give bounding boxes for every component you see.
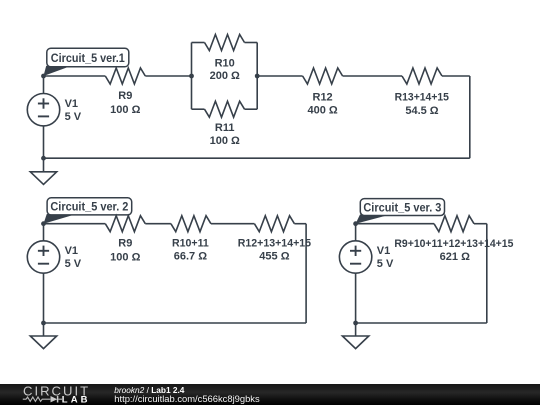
- wire bottom branch left: [192, 108, 205, 110]
- voltage source V1 (circuit 1): [27, 94, 59, 126]
- wire to ground symbol: [43, 158, 45, 172]
- wire node to R9 (c2): [44, 223, 106, 225]
- junction ground node (circuit 1): [41, 156, 46, 161]
- wire to right corner (c2): [294, 223, 306, 225]
- svg-text:R12+13+14+15: R12+13+14+15: [238, 237, 311, 249]
- wire node to V1 top (c3): [355, 224, 357, 241]
- wire to ground symbol (c3): [355, 323, 357, 336]
- resistor R9: [105, 68, 145, 84]
- svg-text:V1: V1: [65, 98, 78, 110]
- svg-text:R9: R9: [118, 90, 132, 102]
- resistor R10: [205, 35, 245, 51]
- svg-text:54.5 Ω: 54.5 Ω: [405, 105, 438, 117]
- wire R9 to R10+11: [145, 223, 171, 225]
- svg-text:Circuit_5 ver. 3: Circuit_5 ver. 3: [363, 202, 441, 214]
- svg-text:621 Ω: 621 Ω: [440, 251, 470, 263]
- ground (circuit 3): [342, 336, 368, 349]
- label Circuit_5 ver. 3 callout: [356, 215, 391, 224]
- resistor R9+10+11+12+13+14+15: [434, 216, 474, 232]
- wire right vertical (c3): [486, 224, 488, 323]
- resistor R9 (c2): [105, 216, 145, 232]
- svg-text:V1: V1: [65, 245, 78, 257]
- junction ground node (circuit 3): [353, 321, 358, 326]
- wire parallel right vertical: [256, 43, 258, 110]
- svg-text:R13+14+15: R13+14+15: [395, 92, 449, 104]
- wire parallel left vertical: [191, 43, 193, 110]
- wire V1 bottom to ground node: [43, 126, 45, 158]
- logo resistor squiggle: [23, 397, 51, 401]
- wire right vertical (c2): [305, 224, 307, 323]
- wire R9 to parallel left: [145, 75, 191, 77]
- svg-text:66.7 Ω: 66.7 Ω: [174, 251, 207, 263]
- voltage source V1 (circuit 3): [339, 241, 371, 273]
- svg-text:5 V: 5 V: [377, 258, 394, 270]
- wire node to V1 top: [43, 76, 45, 94]
- node A (circuit 1 top node): [41, 74, 46, 79]
- resistor R12+13+14+15: [254, 216, 294, 232]
- wire bottom return: [44, 157, 470, 159]
- svg-text:200 Ω: 200 Ω: [210, 70, 240, 82]
- wire to top-right corner: [442, 75, 470, 77]
- wire to right corner (c3): [474, 223, 487, 225]
- node top (circuit 3): [353, 221, 358, 226]
- resistor R13+14+15: [402, 68, 442, 84]
- svg-text:V1: V1: [377, 245, 390, 257]
- svg-text:R12: R12: [313, 92, 333, 104]
- footer credits: [113, 383, 115, 385]
- voltage source V1 (circuit 2): [27, 241, 59, 273]
- wire top branch left: [192, 42, 205, 44]
- CircuitLab logo: [0, 384, 110, 405]
- resistor R10+11: [171, 216, 211, 232]
- wire right vertical: [469, 76, 471, 158]
- label Circuit_5 ver. 2 callout: [44, 214, 78, 224]
- junction ground node (circuit 2): [41, 321, 46, 326]
- svg-text:100 Ω: 100 Ω: [210, 135, 240, 147]
- svg-text:100 Ω: 100 Ω: [110, 251, 140, 263]
- wire node to R9: [44, 75, 106, 77]
- footer bar: [0, 384, 540, 405]
- resistor R11: [205, 101, 245, 117]
- wire bottom return (c2): [44, 322, 307, 324]
- svg-text:Circuit_5 ver.1: Circuit_5 ver.1: [51, 53, 126, 65]
- svg-text:400 Ω: 400 Ω: [307, 104, 337, 116]
- junction parallel left: [189, 74, 194, 79]
- svg-text:5 V: 5 V: [65, 111, 82, 123]
- wire to ground symbol (c2): [43, 323, 45, 336]
- wire R10+11 to R12+13+14+15: [211, 223, 255, 225]
- wire bottom branch right: [245, 108, 258, 110]
- svg-text:5 V: 5 V: [65, 258, 82, 270]
- svg-text:Circuit_5 ver. 2: Circuit_5 ver. 2: [50, 202, 128, 214]
- wire parallel to R12: [257, 75, 302, 77]
- svg-text:R9: R9: [118, 237, 132, 249]
- svg-text:R9+10+11+12+13+14+15: R9+10+11+12+13+14+15: [394, 238, 513, 250]
- wire node to R (c3): [356, 223, 434, 225]
- resistor R12: [303, 68, 343, 84]
- svg-text:R10+11: R10+11: [172, 237, 209, 249]
- wire V1 bottom to ground node (c2): [43, 273, 45, 323]
- node top (circuit 2): [41, 221, 46, 226]
- ground (circuit 2): [30, 336, 56, 349]
- wire R12 to R13+14+15: [343, 75, 402, 77]
- svg-text:R11: R11: [215, 122, 235, 134]
- svg-text:R10: R10: [215, 57, 235, 69]
- junction parallel right: [255, 74, 260, 79]
- wire V1 bottom to ground node (c3): [355, 273, 357, 323]
- wire bottom return (c3): [356, 322, 487, 324]
- label Circuit_5 ver.1 callout: [44, 66, 72, 76]
- ground (circuit 1): [30, 172, 56, 185]
- svg-text:LAB: LAB: [62, 395, 91, 406]
- svg-text:455 Ω: 455 Ω: [259, 251, 289, 263]
- wire node to V1 top (c2): [43, 224, 45, 241]
- svg-text:100 Ω: 100 Ω: [110, 104, 140, 116]
- logo diode: [51, 396, 58, 402]
- wire top branch right: [245, 42, 258, 44]
